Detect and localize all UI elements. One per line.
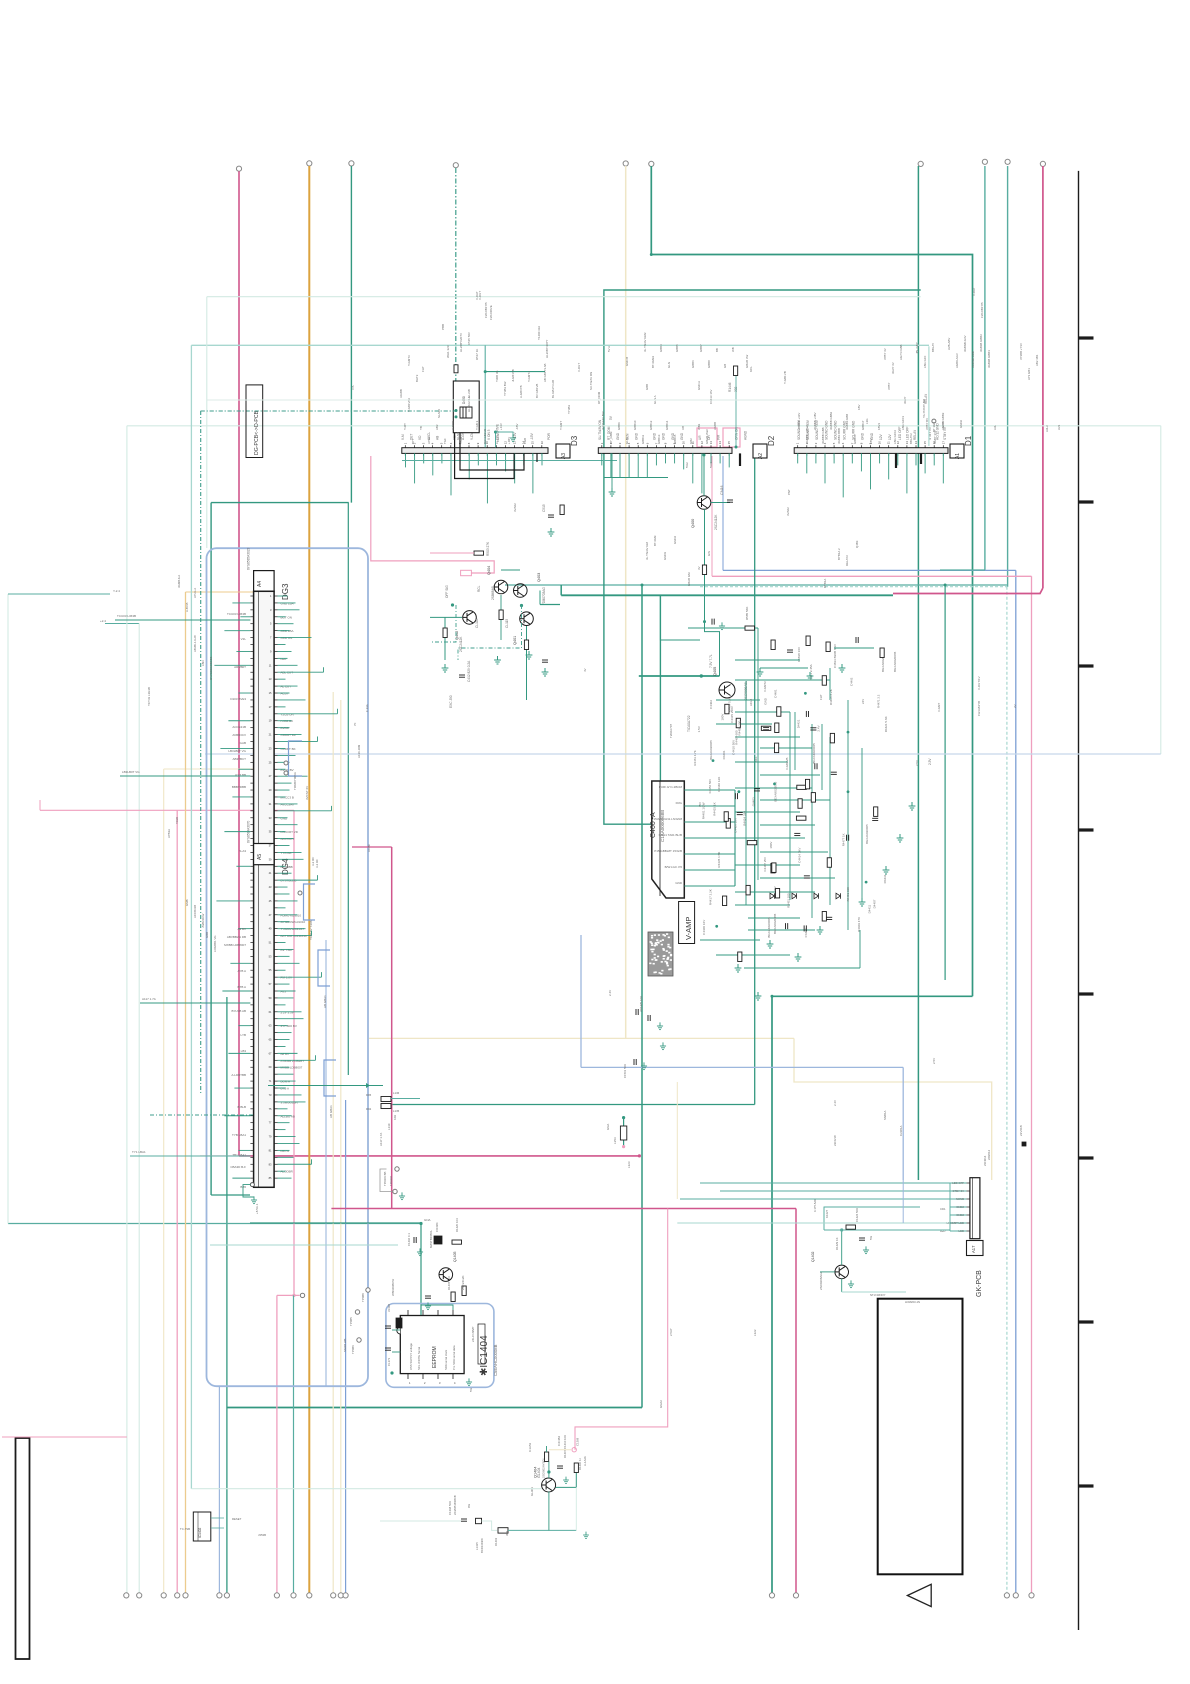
- connector pin tick left: [250, 872, 253, 874]
- svg-text:D4411: D4411: [868, 904, 872, 913]
- svg-text:R4421 5.6K: R4421 5.6K: [884, 716, 888, 732]
- wire dash into relay: [201, 410, 456, 412]
- svg-text:GK-PCB: GK-PCB: [976, 1270, 983, 1297]
- wire Q400 step: [705, 622, 720, 676]
- wire pin stub: [278, 609, 300, 611]
- svg-text:YY3B3 BW: YY3B3 BW: [503, 381, 507, 396]
- capacitor vamp: [786, 923, 788, 929]
- wire pink vertical 177: [176, 810, 178, 1593]
- wire left hook 1003: [140, 1002, 250, 1004]
- wire blue horizontal: [723, 569, 1016, 571]
- gnd: [817, 926, 824, 934]
- svg-text:L136: L136: [393, 1091, 400, 1095]
- wire pin stub left: [238, 768, 250, 770]
- wire pin stub: [278, 851, 302, 853]
- resistor vamp: [822, 912, 826, 922]
- wire D3 pin stub: [405, 453, 407, 467]
- IC1402 box: [193, 1512, 211, 1541]
- connector pin tick left: [250, 844, 253, 846]
- svg-text:A-1A2K: A-1A2K: [583, 1456, 587, 1466]
- wire D1 pin stub: [879, 453, 881, 463]
- wire pin stub: [278, 872, 292, 874]
- wire pink main vertical: [238, 171, 240, 1156]
- EEPROM pin bottom: [407, 1374, 409, 1379]
- svg-text:ACCE31B: ACCE31B: [232, 725, 246, 729]
- connector pin tick: [274, 1004, 277, 1006]
- resistor R400: [761, 726, 771, 730]
- wire D2 pin stub: [637, 453, 639, 477]
- wire pin stub left: [216, 900, 250, 902]
- resistor R409: [830, 733, 834, 743]
- test point TP085: [355, 1310, 359, 1314]
- wire pin stub left: [240, 616, 250, 618]
- gnd: [883, 866, 890, 874]
- svg-text:LB3LB0T VG: LB3LB0T VG: [228, 749, 246, 753]
- svg-text:C515 50V: C515 50V: [467, 332, 471, 345]
- connector pin tick left: [250, 831, 253, 833]
- wire pink corner bottom: [575, 1209, 668, 1450]
- svg-text:Y-GB1VB: Y-GB1VB: [783, 371, 787, 384]
- connector pin tick: [274, 768, 277, 770]
- gnd: [848, 1280, 854, 1287]
- connector pin tick left: [250, 644, 253, 646]
- wire pin stub: [278, 734, 302, 736]
- wire CRT pin stub: [684, 789, 735, 791]
- svg-text:0.1A52: 0.1A52: [528, 1442, 532, 1452]
- connector pin tick: [274, 1156, 277, 1158]
- svg-text:BOM A: BOM A: [281, 1080, 291, 1084]
- svg-text:1BV: 1BV: [857, 404, 861, 410]
- wire crimson stub 847: [352, 846, 392, 848]
- gnd: [542, 668, 549, 676]
- svg-text:Y GB 3: Y GB 3: [475, 420, 479, 430]
- wire pink 1156 left: [200, 1155, 239, 1157]
- junction: [451, 603, 454, 606]
- wire teal right vertical 2: [1007, 166, 1009, 587]
- wire green right vertical: [917, 166, 919, 1180]
- wire pin stub: [278, 706, 286, 708]
- svg-text:AB2 3B1: AB2 3B1: [1035, 354, 1039, 366]
- junction vamp: [712, 759, 715, 762]
- connector pin tick left: [250, 969, 253, 971]
- wire pin stub: [278, 893, 290, 895]
- wire green vertical left: [226, 997, 228, 1593]
- connector pin tick: [274, 1066, 277, 1068]
- svg-text:10: 10: [682, 441, 686, 445]
- wire cream vertical: [625, 166, 627, 1038]
- junction: [840, 1228, 843, 1231]
- wire pin stub left: [238, 928, 250, 930]
- svg-text:GYGB3/WG31010: GYGB3/WG31010: [281, 920, 306, 924]
- connector pin tick: [274, 872, 277, 874]
- resistor R408: [524, 640, 528, 650]
- svg-text:OFF SIG: OFF SIG: [445, 585, 449, 598]
- barcode sticker: [648, 932, 673, 976]
- svg-text:TP085: TP085: [349, 1317, 353, 1326]
- gnd: [526, 651, 533, 659]
- svg-text:GND2: GND2: [956, 1213, 964, 1217]
- wire terminal circle: [623, 161, 628, 166]
- wire D1 pin stub: [888, 453, 890, 479]
- wire terminal circle: [307, 161, 312, 166]
- svg-text:R4424 330: R4424 330: [743, 811, 747, 826]
- svg-text:A139-30M: A139-30M: [357, 744, 361, 758]
- green frame top: [211, 502, 349, 504]
- svg-text:POR: POR: [547, 432, 551, 440]
- resistor R1416: [462, 1286, 466, 1296]
- svg-text:J353B: J353B: [258, 1533, 266, 1537]
- wire D2 pin stub: [683, 453, 685, 469]
- capacitor: [856, 637, 858, 643]
- wire teal elbow 985: [940, 569, 985, 571]
- connector pin tick left: [250, 935, 253, 937]
- wire green vertical to bottom: [771, 996, 773, 1593]
- connector pin tick left: [250, 824, 253, 826]
- wire vamp: [735, 837, 805, 839]
- wire D2 pin stub: [610, 453, 612, 477]
- svg-text:CRD LBA: CRD LBA: [281, 629, 294, 633]
- connector pin tick left: [250, 928, 253, 930]
- svg-text:V-DAT: V-DAT: [972, 287, 976, 296]
- svg-text:3GBNB-G3V: 3GBNB-G3V: [963, 335, 967, 352]
- connector strip inner line: [258, 591, 260, 1187]
- wire bottom stub: [243, 1185, 254, 1197]
- svg-text:3VA02: 3VA02: [513, 503, 517, 512]
- wire pale gray 1488: [191, 1488, 541, 1490]
- wire GK long stub2: [720, 1190, 950, 1192]
- connector pin tick left: [250, 900, 253, 902]
- capacitor C1366: [461, 1519, 467, 1521]
- wire pin stub: [278, 1052, 298, 1054]
- wire green lower horizontal: [227, 1407, 642, 1409]
- wire D1 pin stub: [933, 453, 935, 465]
- resistor R409: [443, 628, 447, 638]
- svg-text:3Y3BB +Y3V: 3Y3BB +Y3V: [1019, 343, 1023, 360]
- test point TP088: [366, 1288, 370, 1292]
- svg-text:B BLB: B BLB: [237, 1105, 246, 1109]
- svg-text:BTB A: BTB A: [237, 985, 246, 989]
- svg-text:24V: 24V: [861, 699, 865, 704]
- svg-text:Y-GM: Y-GM: [459, 436, 463, 444]
- svg-text:AGB0-AGV: AGB0-AGV: [955, 353, 959, 368]
- wire pin stub left: [238, 1025, 250, 1027]
- svg-text:GBB9: GBB9: [617, 422, 621, 430]
- svg-text:Q4B3: Q4B3: [855, 540, 859, 548]
- svg-text:C4481: C4481: [774, 689, 778, 698]
- connector pin tick left: [250, 609, 253, 611]
- wire pale teal vertical 139: [138, 624, 140, 1593]
- wire light teal frame horizontal: [191, 344, 929, 346]
- wire D1 pin stub: [906, 453, 908, 493]
- svg-text:12V: 12V: [888, 433, 892, 440]
- svg-text:BGXAK020065: BGXAK020065: [773, 913, 777, 934]
- EEPROM pin top: [437, 1310, 439, 1316]
- connector pin tick left: [250, 962, 253, 964]
- GK pin tick: [967, 1214, 970, 1216]
- svg-text:17: 17: [941, 441, 945, 445]
- svg-text:GND B: GND B: [625, 357, 629, 366]
- connector pin tick left: [250, 692, 253, 694]
- wire emitter 401: [500, 595, 502, 640]
- wire pin stub left: [232, 602, 250, 604]
- wire vamp: [735, 736, 800, 738]
- wire left hook 776: [120, 775, 250, 777]
- wire pin stub: [278, 1066, 290, 1068]
- svg-text:AYB A: AYB A: [238, 969, 246, 973]
- wire D2 pin stub: [646, 453, 648, 477]
- svg-text:GBB5: GBB5: [675, 344, 679, 352]
- connector pin tick left: [250, 637, 253, 639]
- resistor R1403: [498, 1528, 508, 1533]
- barcode texture: [662, 934, 664, 936]
- wire pin stub: [278, 699, 306, 701]
- resistor vamp: [772, 863, 776, 873]
- svg-text:A3L2: A3L2: [1045, 425, 1049, 432]
- svg-text:+13V: +13V: [499, 423, 503, 430]
- svg-text:GND: GND: [861, 432, 865, 440]
- wire pin stub: [278, 761, 290, 763]
- wire pale y400: [207, 399, 920, 401]
- wire emitter join: [575, 1487, 577, 1530]
- svg-text:1BV2: 1BV2: [877, 423, 881, 430]
- svg-text:ACL: ACL: [754, 756, 758, 762]
- wire blue hook3: [324, 1060, 336, 1096]
- svg-text:GMB: GMB: [185, 899, 189, 906]
- fold tick: [1079, 500, 1094, 503]
- svg-text:L139: L139: [387, 1123, 391, 1130]
- wire black elbow 2: [460, 433, 524, 470]
- svg-text:3GBB3 BBB: 3GBB3 BBB: [837, 428, 841, 444]
- connector pin tick: [274, 720, 277, 722]
- gnd: [399, 1192, 405, 1199]
- wire terminal circle: [1005, 159, 1010, 164]
- svg-text:TCU03 L363B: TCU03 L363B: [117, 614, 136, 618]
- svg-text:4Y7 B00 BV: 4Y7 B00 BV: [281, 1024, 297, 1028]
- svg-text:R4477 1K: R4477 1K: [841, 833, 845, 846]
- svg-text:L323: L323: [627, 1161, 631, 1168]
- wire Q400 right: [711, 502, 730, 504]
- wire pale teal vertical 127: [126, 426, 128, 1593]
- wire CRT pin stub: [684, 853, 735, 855]
- connector pin tick left: [250, 595, 253, 597]
- svg-text:3C9: 3C9: [505, 1530, 509, 1536]
- connector pin tick: [274, 782, 277, 784]
- connector pin tick: [274, 1045, 277, 1047]
- svg-text:TP0608: TP0608: [389, 1176, 393, 1186]
- svg-text:FHT: FHT: [421, 366, 425, 372]
- test point: [298, 891, 302, 895]
- connector pin tick left: [250, 921, 253, 923]
- wire pin stub: [278, 720, 292, 722]
- diode D401: [792, 893, 796, 899]
- wire pin stub: [278, 1163, 312, 1165]
- wire pale blue horizontal 754: [205, 753, 1161, 755]
- svg-text:15V: 15V: [773, 886, 777, 891]
- wire pin stub: [278, 782, 292, 784]
- gnd: [863, 1246, 869, 1253]
- wire GK stub: [950, 1182, 967, 1184]
- wire GK stub: [950, 1206, 967, 1208]
- wire vamp v: [829, 737, 831, 905]
- wire L353 net: [623, 1118, 625, 1147]
- svg-text:3YBY BV: 3YBY BV: [925, 418, 929, 430]
- wire crimson right vertical: [1042, 166, 1044, 588]
- wire green horizontal 1104: [391, 1104, 755, 1106]
- resistor vamp: [775, 743, 779, 753]
- connector pin tick left: [250, 1115, 253, 1117]
- connector pin tick left: [250, 914, 253, 916]
- connector pin tick: [274, 1149, 277, 1151]
- relay glyph: [460, 407, 472, 418]
- wire pin stub: [278, 1129, 286, 1131]
- wire eeprom top: [420, 1310, 422, 1315]
- svg-text:AV2: AV2: [1057, 424, 1061, 430]
- svg-text:2.4V: 2.4V: [833, 1100, 837, 1106]
- svg-text:AB GBA1: AB GBA1: [323, 995, 327, 1008]
- svg-text:D103 BVE3: D103 BVE3: [230, 697, 246, 701]
- connector pin tick: [274, 803, 277, 805]
- wire pink horizontal TP081: [277, 1294, 300, 1296]
- transistor Q402: [463, 611, 477, 625]
- connector pin tick: [274, 838, 277, 840]
- wire pin stub: [278, 955, 290, 957]
- transistor Q404: [494, 580, 508, 594]
- svg-text:AVCC3AV: AVCC3AV: [281, 802, 295, 806]
- svg-text:BV GB1VB: BV GB1VB: [535, 384, 539, 398]
- svg-text:ALLBO AB: ALLBO AB: [281, 1114, 295, 1118]
- stub hook: [317, 875, 319, 880]
- svg-text:UB: UB: [681, 426, 685, 430]
- capacitor C406: [826, 917, 832, 919]
- svg-text:Y100-6V Y206: Y100-6V Y206: [309, 920, 313, 940]
- svg-text:2.4V: 2.4V: [817, 725, 821, 731]
- wire terminal circle: [307, 1593, 312, 1598]
- connector pin tick: [274, 907, 277, 909]
- svg-text:BBLAY: BBLAY: [931, 343, 935, 352]
- resistor R503: [474, 551, 484, 555]
- connector pin tick left: [250, 1045, 253, 1047]
- svg-text:F 23A: F 23A: [365, 704, 369, 712]
- svg-text:AYB/BB 2 DB2BY: AYB/BB 2 DB2BY: [281, 1059, 305, 1063]
- connector A4 box: [254, 571, 275, 592]
- connector pin tick: [274, 1170, 277, 1172]
- wire pin stub: [278, 817, 288, 819]
- wire gk h: [824, 1229, 950, 1231]
- connector D2 strip: [598, 448, 732, 454]
- svg-text:RELAY2: RELAY2: [845, 555, 849, 566]
- wire pin stub: [278, 1115, 292, 1117]
- connector pin tick left: [250, 1087, 253, 1089]
- svg-text:EXC J90: EXC J90: [449, 695, 453, 708]
- junction: [638, 1154, 641, 1157]
- svg-text:GBB11: GBB11: [641, 435, 645, 444]
- wire pin stub: [278, 865, 286, 867]
- svg-text:D1: D1: [964, 435, 973, 446]
- svg-text:3GBBB +3BV: 3GBBB +3BV: [813, 412, 817, 430]
- svg-text:TCU03 L363B: TCU03 L363B: [227, 612, 246, 616]
- svg-text:PM 1.8V: PM 1.8V: [281, 976, 293, 980]
- wire D2 pin stub: [601, 453, 603, 465]
- svg-text:GB: GB: [723, 364, 727, 368]
- svg-text:ABJBL1.GJ8: ABJBL1.GJ8: [193, 635, 197, 652]
- wire vamp: [760, 774, 820, 776]
- svg-text:MXCC3 B: MXCC3 B: [281, 795, 294, 799]
- svg-text:GND2: GND2: [956, 1205, 964, 1209]
- wire D2 pin stub: [701, 453, 703, 493]
- wire terminal circle: [274, 1593, 279, 1598]
- connector pin tick: [274, 623, 277, 625]
- svg-text:2SC2412K: 2SC2412K: [461, 1275, 465, 1290]
- svg-text:Y GMT: Y GMT: [559, 421, 563, 430]
- svg-text:LED: LED: [959, 1229, 964, 1233]
- wire pin stub: [278, 879, 318, 881]
- svg-text:3141B: 3141B: [387, 1304, 391, 1312]
- wire pin stub: [278, 1136, 296, 1138]
- svg-text:AVBB3CV: AVBB3CV: [232, 733, 246, 737]
- wire pale 1521: [380, 1520, 461, 1522]
- svg-text:R4471 2.2: R4471 2.2: [876, 694, 880, 708]
- wire pink vertical 277: [276, 1295, 278, 1592]
- svg-text:BY_GGM: BY_GGM: [609, 431, 613, 444]
- junction pink: [622, 1145, 625, 1148]
- svg-text:R503 27K: R503 27K: [486, 541, 490, 556]
- wire pin stub: [278, 1025, 288, 1027]
- wire CRT pin stub: [684, 821, 735, 823]
- wire cream tp: [549, 1449, 571, 1451]
- svg-text:+1BV: +1BV: [507, 437, 511, 444]
- resistor R411: [499, 610, 503, 620]
- wire pin stub: [278, 810, 332, 812]
- connector pin tick left: [250, 1073, 253, 1075]
- svg-text:22F9/18: 22F9/18: [833, 1135, 837, 1146]
- junction: [735, 446, 738, 449]
- gnd: [719, 622, 725, 629]
- wire D3 pin stub: [441, 453, 443, 463]
- arrow mark: [366, 1083, 370, 1088]
- svg-text:YCY33 L3G3B: YCY33 L3G3B: [147, 687, 151, 706]
- gnd: [795, 953, 802, 961]
- wire pin stub: [278, 1018, 304, 1020]
- svg-text:AGND: AGND: [744, 430, 748, 440]
- wire pin stub left: [236, 650, 250, 652]
- connector pin tick: [274, 955, 277, 957]
- svg-text:3GMBJLA: 3GMBJLA: [177, 575, 181, 588]
- connector pin tick left: [250, 865, 253, 867]
- svg-text:GBB15: GBB15: [673, 434, 677, 444]
- svg-text:223/RB1B1B0B: 223/RB1B1B0B: [453, 1495, 457, 1515]
- svg-text:ABVBB2 A DB: ABVBB2 A DB: [227, 935, 246, 939]
- wire pin stub: [278, 942, 286, 944]
- connector pin tick: [274, 865, 277, 867]
- connector pin tick: [274, 671, 277, 673]
- wire CRT bus vertical: [734, 790, 736, 886]
- svg-text:A9 BV: A9 BV: [237, 927, 246, 931]
- wire pin stub left: [234, 1087, 250, 1089]
- svg-text:C1406 0.1: C1406 0.1: [407, 1233, 411, 1246]
- wire h: [735, 659, 800, 661]
- svg-text:41/1425 16V: 41/1425 16V: [639, 996, 643, 1012]
- wire pin stub: [278, 741, 318, 743]
- wire top cluster3: [757, 628, 759, 700]
- wire D3 pin stub: [450, 453, 452, 495]
- EEPROM pin top: [407, 1310, 409, 1316]
- connector pin tick: [274, 879, 277, 881]
- connector pin tick: [274, 637, 277, 639]
- capacitor: [787, 650, 793, 652]
- svg-text:GND: GND: [675, 881, 683, 885]
- svg-text:A-GB1YB: A-GB1YB: [519, 385, 523, 398]
- resistor vamp: [822, 676, 826, 686]
